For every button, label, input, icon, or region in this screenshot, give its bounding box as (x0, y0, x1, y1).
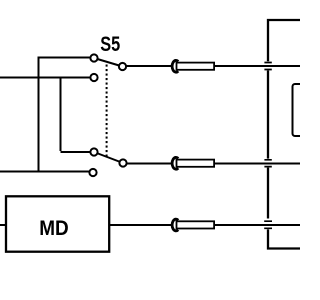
svg-text:MD: MD (39, 217, 68, 240)
svg-text:S5: S5 (100, 33, 120, 56)
